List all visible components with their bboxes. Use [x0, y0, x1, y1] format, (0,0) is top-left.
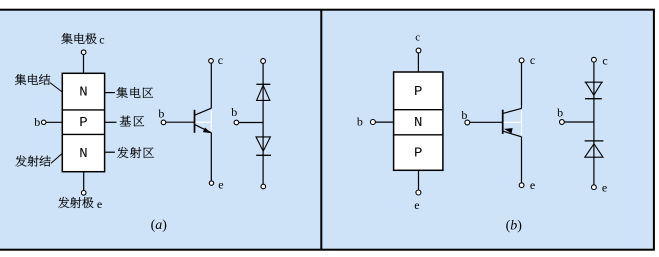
- base branch wire (a diodes): [239, 122, 263, 124]
- svg-text:b: b: [158, 107, 164, 121]
- collector terminal circle (b): [416, 48, 421, 53]
- svg-text:(a): (a): [151, 218, 168, 233]
- label 基区: [120, 116, 131, 127]
- wire (b diodes, full): [593, 62, 595, 185]
- Q2 base lead: [470, 121, 503, 123]
- diode D1 triangle (pointing up): [257, 85, 270, 100]
- svg-text:P: P: [414, 84, 422, 100]
- svg-text:c: c: [218, 53, 223, 67]
- svg-text:c: c: [602, 53, 607, 67]
- svg-text:b: b: [357, 115, 363, 129]
- pointer line for 集电区: [105, 92, 115, 94]
- svg-text:b: b: [557, 105, 563, 119]
- emitter junction line (P/N): [62, 133, 104, 135]
- base terminal circle (b diodes): [560, 120, 565, 125]
- diode D4 triangle (pointing up): [585, 144, 603, 157]
- base terminal circle (b): [370, 120, 375, 125]
- svg-text:e: e: [414, 198, 419, 212]
- base branch wire (b diodes): [564, 121, 594, 123]
- Q1 emitter wire: [210, 133, 212, 181]
- Q1 collector terminal circle: [209, 59, 214, 64]
- Q1 collector diagonal: [195, 108, 212, 115]
- svg-text:N: N: [79, 146, 87, 162]
- svg-text:e: e: [530, 178, 535, 192]
- label 发射结: [16, 156, 27, 167]
- label 集电结: [15, 74, 26, 85]
- Q2 emitter wire: [521, 137, 523, 183]
- Q1 white base-level line: [196, 121, 211, 123]
- Q2 base terminal circle: [465, 120, 470, 125]
- label 发射区: [117, 147, 128, 158]
- Q2 white vertical artifact line: [521, 110, 523, 135]
- svg-text:e: e: [97, 197, 102, 211]
- svg-text:P: P: [414, 146, 422, 162]
- svg-text:c: c: [530, 53, 535, 67]
- Q1 white vertical artifact line: [210, 110, 212, 132]
- Q1 base lead: [165, 121, 194, 123]
- Q1 collector wire: [210, 63, 212, 108]
- divider between (a) and (b): [320, 10, 322, 250]
- svg-text:(b): (b): [506, 219, 523, 234]
- Q2 emitter terminal circle: [519, 183, 524, 188]
- Q1 base bar: [194, 110, 196, 133]
- top terminal circle (a diodes): [261, 59, 266, 64]
- svg-text:N: N: [414, 115, 422, 131]
- pointer line for 集电结: [50, 83, 62, 93]
- base terminal circle: [42, 120, 46, 124]
- collector terminal circle: [81, 50, 86, 55]
- svg-text:e: e: [218, 177, 223, 191]
- diode D2 cathode bar: [256, 154, 271, 156]
- diode D2 triangle (pointing down): [256, 137, 270, 151]
- Q1 emitter arrow: [203, 127, 211, 133]
- svg-text:b: b: [231, 105, 237, 119]
- diode D3 triangle (pointing down): [585, 82, 603, 95]
- label 集电区: [116, 87, 127, 98]
- svg-text:b: b: [34, 115, 40, 129]
- pointer line for 基区: [105, 121, 117, 123]
- collector lead wire: [83, 55, 85, 74]
- PNP structure box: [394, 72, 443, 170]
- svg-text:e: e: [602, 181, 607, 195]
- Q2 collector diagonal: [503, 108, 522, 113]
- label 发射极 e: [58, 197, 69, 208]
- bottom terminal circle (a diodes): [261, 184, 266, 189]
- svg-text:P: P: [79, 115, 87, 131]
- emitter terminal circle: [81, 191, 86, 196]
- wire (a diodes, full): [262, 63, 264, 184]
- emitter lead wire: [83, 172, 85, 191]
- Q2 base bar: [502, 110, 504, 134]
- Q2 collector terminal circle: [519, 58, 524, 63]
- label 集电极 c: [61, 33, 72, 44]
- diode D3 cathode bar: [585, 98, 602, 100]
- NPN structure box: [62, 73, 104, 171]
- Q1 emitter diagonal: [195, 125, 212, 133]
- base terminal circle (a diodes): [234, 120, 239, 125]
- svg-text:N: N: [79, 85, 87, 101]
- emitter terminal circle (b): [416, 190, 421, 195]
- Q2 emitter arrow (pointing toward base): [504, 128, 513, 133]
- Q2 collector wire: [521, 63, 523, 109]
- emitter lead wire (b): [418, 170, 420, 190]
- svg-text:c: c: [99, 32, 104, 46]
- diode D1 cathode bar: [256, 83, 270, 85]
- svg-text:b: b: [461, 108, 467, 122]
- svg-text:c: c: [415, 31, 420, 43]
- Q2 emitter diagonal: [503, 131, 522, 137]
- collector junction line (N/P): [62, 109, 104, 111]
- junction line P/N: [394, 109, 443, 111]
- base lead wire (b): [375, 121, 393, 123]
- diode D4 cathode bar: [585, 140, 604, 142]
- Q2 white base-level line: [504, 121, 521, 123]
- Q1 base terminal circle: [161, 120, 166, 125]
- base lead wire: [46, 121, 62, 123]
- junction line N/P: [394, 134, 443, 136]
- pointer line for 发射区: [105, 151, 115, 153]
- collector lead wire (b): [417, 53, 419, 72]
- pointer line for 发射结: [51, 153, 62, 163]
- top terminal circle (b diodes): [592, 57, 597, 62]
- bottom terminal circle (b diodes): [592, 185, 597, 190]
- Q1 emitter terminal circle: [209, 181, 213, 185]
